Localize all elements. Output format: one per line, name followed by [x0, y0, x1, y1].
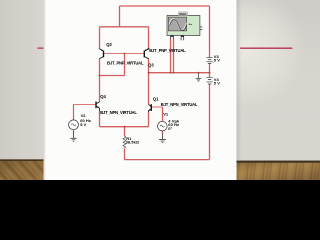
wood floor right [236, 161, 320, 180]
svg-text:Q2: Q2 [106, 42, 112, 47]
transistor Q3 [144, 49, 148, 59]
svg-text:38.5kΩ: 38.5kΩ [126, 140, 140, 145]
svg-text:5 V: 5 V [214, 81, 220, 86]
source V1 [158, 121, 168, 131]
svg-text:V1: V1 [163, 111, 169, 116]
node Q3 emitter [148, 48, 150, 50]
wire scope A [170, 38, 172, 73]
svg-text:Ext: Ext [189, 23, 193, 26]
node left rail tie [99, 75, 101, 77]
node output on mid rail [148, 72, 150, 74]
wire Q1 base [151, 106, 162, 108]
white slide [44, 0, 237, 180]
svg-text:BJT_NPN_VIRTUAL: BJT_NPN_VIRTUAL [161, 102, 198, 107]
svg-text:0°: 0° [168, 126, 172, 131]
right wall [236, 0, 320, 161]
junction dots [99, 48, 211, 128]
wire base Q2-Q3 [104, 53, 144, 55]
wire pnp emitter rail [100, 26, 149, 28]
wire Q4 base [74, 104, 96, 106]
transistor Q4 [96, 102, 100, 111]
wire V1 drop [162, 107, 164, 121]
battery V3 [206, 58, 212, 65]
node battery mid [209, 72, 211, 74]
wall shading right of slide [0, 0, 1, 1]
wire top rail [120, 5, 210, 7]
wire mid ground stub [198, 73, 200, 74]
slide left edge soft transition [0, 0, 1, 1]
wire emitter rail [100, 126, 149, 128]
wire V3 to mid rail [209, 65, 211, 73]
wire left rail Q2C to Q4C [99, 59, 101, 102]
svg-text:5 V: 5 V [80, 122, 86, 127]
wire V2 drop [73, 105, 75, 120]
left wall [0, 0, 44, 160]
svg-text:BJT_PNP_VIRTUAL: BJT_PNP_VIRTUAL [107, 61, 144, 66]
transistor Q1 [149, 104, 152, 112]
red stripe on right wall [240, 48, 293, 49]
wire right rail lower [209, 85, 211, 159]
op scope XSC1 [167, 12, 202, 40]
red stripe dash on left wall [37, 48, 44, 49]
svg-text:Q1: Q1 [153, 97, 159, 102]
battery V4 [206, 78, 212, 86]
wire mid rail [149, 72, 210, 74]
wire right rail upper [209, 6, 211, 57]
wire V1 to ground [162, 131, 164, 134]
svg-text:BJT_PNP_VIRTUAL: BJT_PNP_VIRTUAL [149, 48, 186, 53]
node scope A on mid rail [170, 72, 172, 74]
svg-text:Q4: Q4 [100, 94, 106, 99]
node scope B on mid rail [173, 72, 175, 74]
wire Q2 emitter drop [99, 27, 101, 49]
svg-text:5 V: 5 V [214, 58, 220, 63]
ground (mid rail) [196, 73, 202, 81]
wire diode link horizontal [100, 75, 125, 77]
svg-text:Q3: Q3 [148, 63, 154, 68]
wire Q1 emitter drop [148, 112, 150, 127]
wood floor left [0, 159, 44, 180]
wire top tap [119, 6, 121, 27]
node R1 tap [124, 126, 126, 128]
ground (V1) [159, 134, 166, 143]
node ground tap [198, 72, 200, 74]
wire Q4 emitter drop [99, 111, 101, 127]
wire R1 top lead [124, 127, 126, 137]
node base-collector tie [124, 53, 126, 55]
svg-text:BJT_NPN_VIRTUAL: BJT_NPN_VIRTUAL [100, 110, 137, 115]
wire Q3C to Q1C rail [148, 59, 150, 105]
wire bottom rail [125, 159, 210, 161]
ground (V2) [70, 132, 76, 142]
wire scope B [173, 38, 175, 73]
svg-text:XSC1: XSC1 [179, 12, 187, 16]
source V2 [69, 120, 79, 130]
transistor Q2 [100, 49, 104, 59]
wire R1 bottom lead [124, 148, 126, 159]
wire V2 to ground [73, 130, 75, 133]
wire diode link vertical [124, 54, 126, 76]
wire Q3 emitter drop [148, 27, 150, 49]
resistor R1 [123, 136, 126, 148]
wire V4 top [209, 73, 211, 77]
